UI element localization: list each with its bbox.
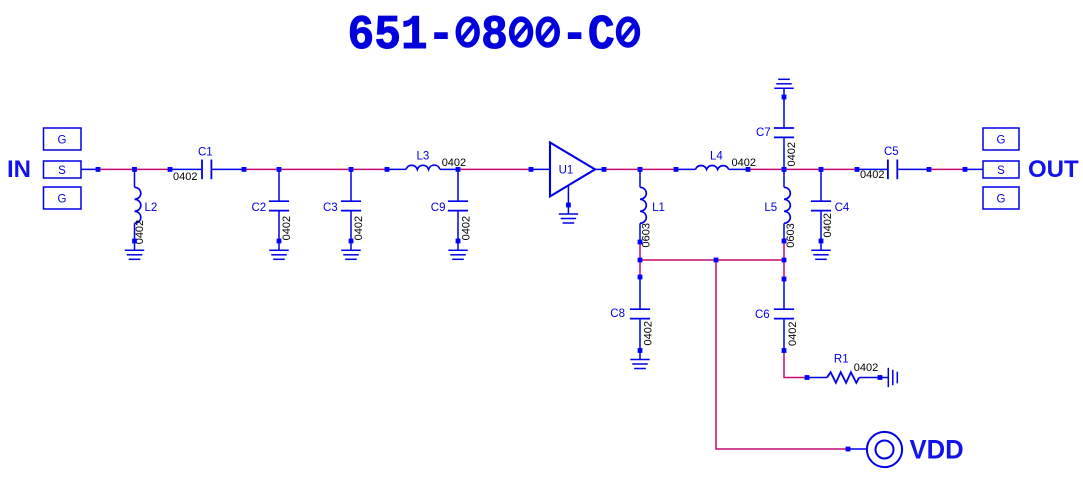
svg-text:OUT: OUT	[1028, 156, 1079, 183]
svg-text:C5: C5	[884, 146, 899, 158]
svg-text:0402: 0402	[787, 322, 799, 346]
svg-text:C4: C4	[835, 202, 850, 214]
svg-text:0402: 0402	[353, 216, 365, 240]
svg-text:0603: 0603	[641, 223, 653, 247]
svg-text:0402: 0402	[786, 142, 798, 166]
svg-text:0402: 0402	[643, 321, 655, 345]
svg-text:0402: 0402	[732, 157, 756, 169]
svg-text:0603: 0603	[785, 223, 797, 247]
svg-text:VDD: VDD	[910, 434, 964, 465]
svg-text:U1: U1	[559, 165, 574, 177]
svg-text:S: S	[58, 165, 66, 177]
svg-text:C3: C3	[323, 202, 338, 214]
svg-text:IN: IN	[7, 156, 31, 183]
svg-text:C2: C2	[252, 202, 267, 214]
svg-text:R1: R1	[834, 354, 849, 366]
svg-text:0402: 0402	[461, 216, 473, 240]
svg-text:S: S	[997, 165, 1005, 177]
svg-text:L4: L4	[710, 151, 723, 163]
svg-text:651- 8 -C: 651- 8 -C	[348, 7, 642, 62]
svg-text:L3: L3	[417, 151, 430, 163]
svg-text:C6: C6	[755, 309, 770, 321]
svg-text:C7: C7	[756, 127, 771, 139]
svg-text:C1: C1	[198, 147, 213, 159]
svg-text:0402: 0402	[442, 157, 466, 169]
svg-text:0402: 0402	[173, 171, 197, 183]
svg-text:C9: C9	[431, 202, 446, 214]
svg-text:0402: 0402	[854, 362, 878, 374]
svg-text:G: G	[997, 134, 1006, 146]
svg-text:C8: C8	[610, 308, 625, 320]
svg-text:G: G	[58, 193, 67, 205]
svg-text:L1: L1	[652, 202, 665, 214]
svg-text:G: G	[58, 134, 67, 146]
svg-text:0402: 0402	[860, 169, 884, 181]
svg-text:G: G	[997, 193, 1006, 205]
svg-text:L5: L5	[764, 202, 777, 214]
svg-text:0402: 0402	[822, 213, 834, 237]
svg-text:0402: 0402	[281, 216, 293, 240]
svg-text:L2: L2	[145, 202, 158, 214]
